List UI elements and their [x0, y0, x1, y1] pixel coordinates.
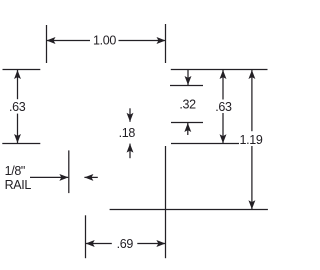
wire: top-right part edge line	[171, 69, 268, 71]
svg-text:.63: .63	[215, 100, 232, 114]
svg-text:1.19: 1.19	[240, 133, 263, 147]
dimension line .63 right with arrows	[222, 70, 224, 100]
wire: lower-right part edge line	[171, 143, 239, 145]
wire: right extension line of .69 / right part edge	[165, 146, 167, 258]
wire: rail seat upper edge line	[170, 85, 203, 87]
rail thickness left-pointing arrow	[84, 176, 97, 178]
svg-text:.32: .32	[179, 97, 196, 111]
wire: top-left part edge extension line	[3, 69, 41, 71]
wire: left extension line of 1.00	[46, 25, 48, 63]
wire: lower-left part edge extension line	[2, 143, 40, 145]
svg-text:.18: .18	[119, 126, 136, 140]
wire: rail slot left wall line	[68, 150, 70, 193]
svg-text:.63: .63	[9, 100, 26, 114]
svg-text:1/8": 1/8"	[5, 164, 25, 178]
wire: right extension line of 1.00	[165, 24, 167, 63]
dimension line .63 left with arrows	[17, 70, 19, 100]
dimension .32 lower arrow	[187, 123, 189, 135]
wire: left extension line of .69	[85, 215, 87, 258]
wire: rail seat lower edge line	[171, 122, 203, 124]
svg-text:.69: .69	[117, 237, 134, 251]
svg-text:1.00: 1.00	[93, 34, 116, 48]
dimension line 1.00 with arrows	[47, 40, 91, 42]
dimension line .69 with arrows	[86, 243, 112, 245]
dimension .32 upper arrow	[187, 70, 189, 86]
dimension .18 lower arrow	[129, 144, 131, 159]
dimension .18 upper arrow	[129, 108, 131, 122]
wire: bottom part edge line	[110, 209, 268, 211]
svg-text:RAIL: RAIL	[5, 178, 32, 192]
dimension line 1.19 with arrows	[251, 70, 253, 131]
leader arrow for 1/8 inch rail	[30, 176, 68, 178]
